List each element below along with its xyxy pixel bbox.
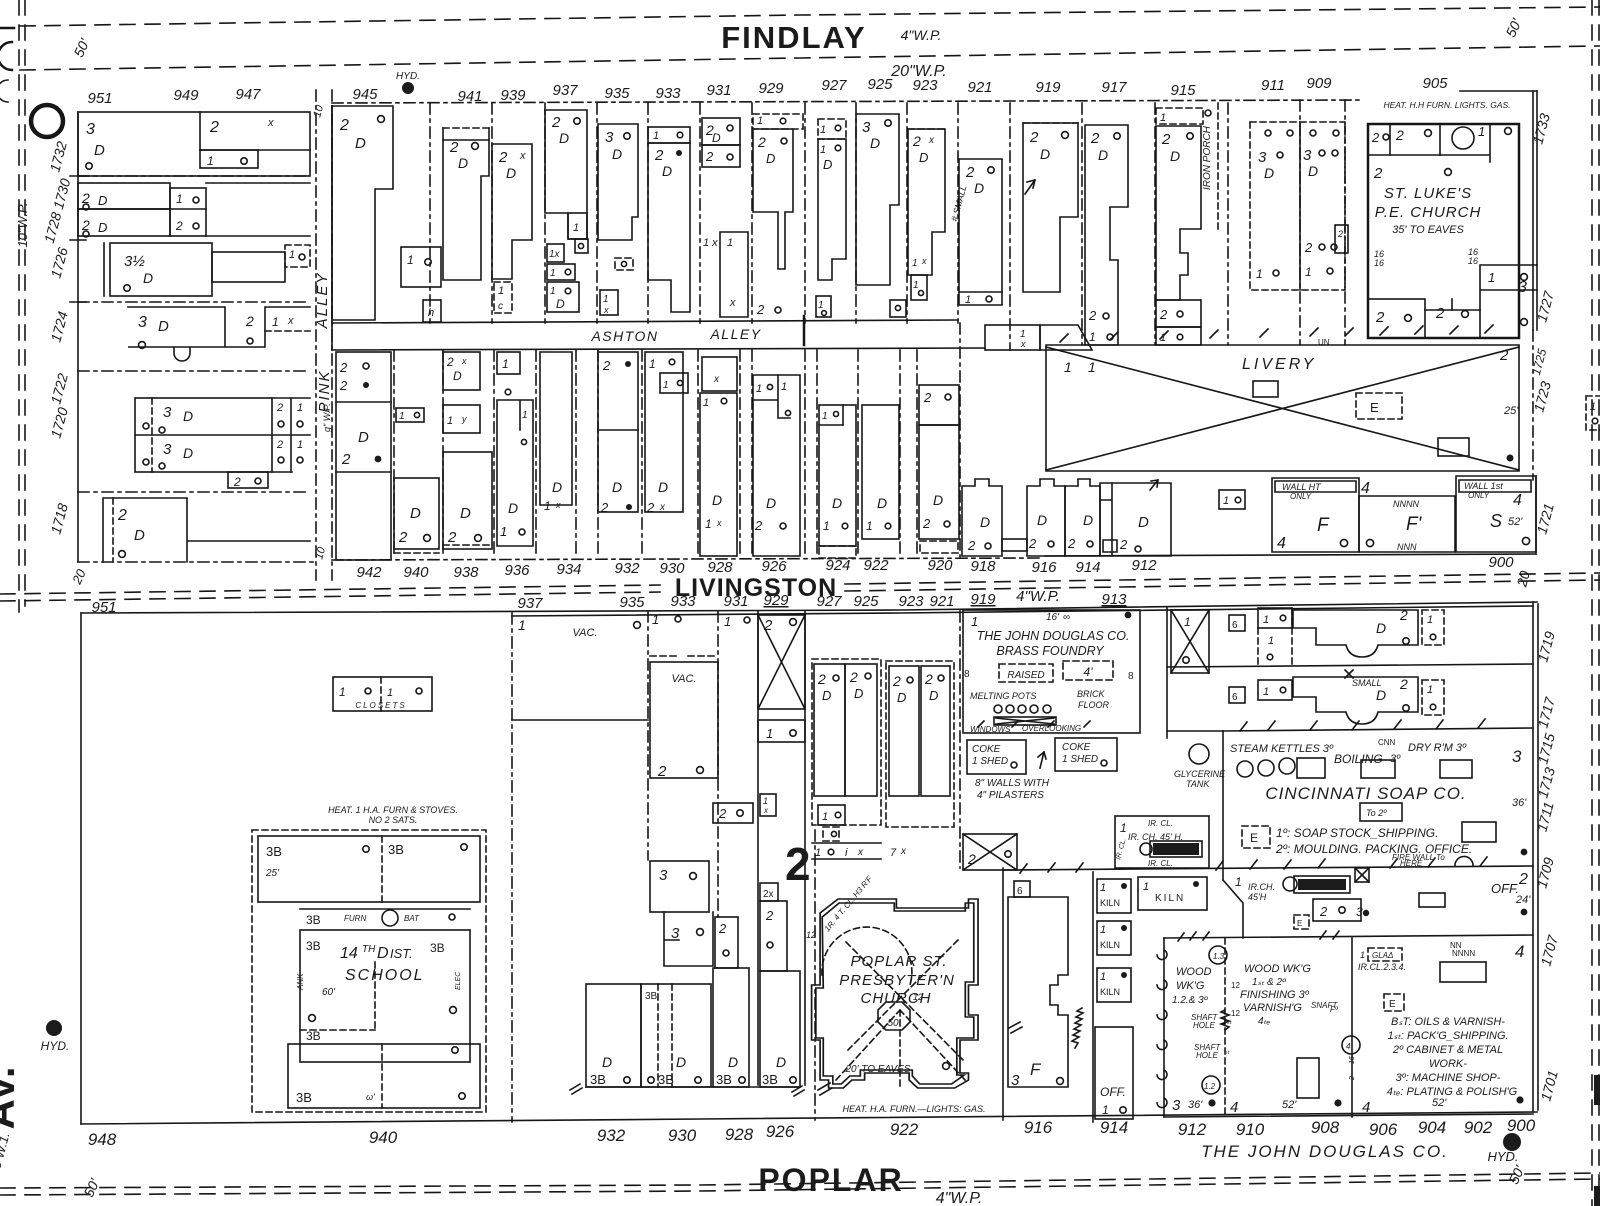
svg-text:ALLEY: ALLEY bbox=[709, 326, 761, 342]
svg-text:1: 1 bbox=[272, 315, 279, 329]
svg-text:1: 1 bbox=[207, 154, 214, 168]
svg-text:BRICK: BRICK bbox=[1077, 689, 1106, 699]
svg-text:2: 2 bbox=[498, 149, 508, 166]
svg-text:2: 2 bbox=[817, 671, 826, 687]
svg-text:WORK-: WORK- bbox=[1429, 1058, 1467, 1070]
svg-text:920: 920 bbox=[927, 557, 953, 574]
svg-text:HEAT. H.H FURN. LIGHTS. GAS.: HEAT. H.H FURN. LIGHTS. GAS. bbox=[1383, 100, 1510, 110]
svg-text:x: x bbox=[519, 150, 526, 162]
svg-text:940: 940 bbox=[369, 1128, 398, 1147]
svg-text:2: 2 bbox=[1349, 1076, 1356, 1081]
svg-text:1: 1 bbox=[544, 499, 551, 513]
svg-text:To 2º: To 2º bbox=[1366, 808, 1387, 818]
svg-text:909: 909 bbox=[1306, 75, 1332, 92]
lot 936 bbox=[497, 352, 520, 374]
svg-text:3: 3 bbox=[86, 121, 95, 138]
svg-text:1: 1 bbox=[1305, 265, 1312, 279]
svg-text:2: 2 bbox=[339, 360, 348, 375]
X box bbox=[963, 834, 1017, 870]
lot 935 bbox=[598, 124, 638, 240]
svg-text:924: 924 bbox=[825, 557, 850, 574]
svg-text:1: 1 bbox=[297, 439, 303, 451]
svg-text:x: x bbox=[603, 305, 609, 315]
svg-text:2: 2 bbox=[1373, 165, 1383, 182]
svg-text:948: 948 bbox=[88, 1130, 117, 1149]
svg-text:932: 932 bbox=[597, 1126, 626, 1145]
svg-text:2: 2 bbox=[1371, 130, 1380, 145]
svg-text:COKE: COKE bbox=[972, 744, 1001, 755]
svg-text:2: 2 bbox=[341, 451, 351, 468]
svg-text:2: 2 bbox=[785, 838, 811, 890]
svg-text:3B: 3B bbox=[306, 1029, 321, 1043]
svg-text:3: 3 bbox=[163, 404, 172, 421]
svg-text:2: 2 bbox=[1029, 129, 1039, 146]
lot 923 bbox=[908, 129, 945, 275]
Findlay north dashed line bbox=[20, 7, 1600, 26]
svg-text:2: 2 bbox=[967, 851, 976, 867]
svg-text:OFF.: OFF. bbox=[1491, 881, 1519, 896]
svg-text:1: 1 bbox=[1427, 614, 1433, 626]
svg-text:1: 1 bbox=[965, 294, 971, 306]
svg-text:D: D bbox=[556, 297, 565, 311]
svg-text:x: x bbox=[900, 846, 907, 857]
svg-text:2x: 2x bbox=[763, 889, 774, 900]
svg-text:1: 1 bbox=[913, 280, 919, 291]
lot 926 bbox=[753, 375, 800, 556]
svg-text:4: 4 bbox=[1362, 1099, 1370, 1116]
svg-text:936: 936 bbox=[504, 562, 530, 579]
svg-text:905: 905 bbox=[1422, 75, 1448, 92]
right frame dashed verticals bbox=[1591, 0, 1593, 1206]
svg-text:2: 2 bbox=[1090, 130, 1100, 147]
svg-text:D: D bbox=[1098, 147, 1108, 163]
svg-text:WOOD WK'G: WOOD WK'G bbox=[1244, 963, 1311, 975]
svg-text:3: 3 bbox=[671, 925, 680, 942]
svg-text:926: 926 bbox=[766, 1122, 795, 1141]
svg-text:D: D bbox=[712, 131, 721, 145]
svg-text:x: x bbox=[1020, 339, 1026, 349]
svg-text:934: 934 bbox=[556, 561, 581, 578]
svg-text:1: 1 bbox=[822, 811, 828, 823]
svg-text:2: 2 bbox=[1399, 676, 1408, 692]
svg-text:1: 1 bbox=[1089, 330, 1096, 344]
svg-text:916: 916 bbox=[1024, 1118, 1053, 1137]
svg-text:925: 925 bbox=[853, 593, 879, 610]
svg-text:2: 2 bbox=[646, 500, 655, 515]
svg-text:MELTING POTS: MELTING POTS bbox=[970, 691, 1036, 701]
svg-text:GLYCERINE: GLYCERINE bbox=[1174, 769, 1226, 779]
svg-text:1: 1 bbox=[387, 687, 393, 699]
svg-text:2: 2 bbox=[1337, 229, 1343, 239]
svg-text:4: 4 bbox=[1361, 480, 1370, 497]
svg-text:1: 1 bbox=[297, 402, 303, 414]
edge ticks bbox=[70, 175, 86, 177]
svg-text:2: 2 bbox=[967, 538, 976, 553]
right edge letter fragments bbox=[1594, 1075, 1600, 1105]
svg-text:IR.CH.: IR.CH. bbox=[1248, 882, 1275, 892]
svg-text:2: 2 bbox=[654, 147, 664, 164]
svg-text:GLAΔ: GLAΔ bbox=[1372, 951, 1393, 960]
svg-text:2: 2 bbox=[756, 302, 765, 317]
alley-end boxes bbox=[985, 325, 1040, 350]
svg-text:2: 2 bbox=[912, 133, 921, 149]
svg-text:1: 1 bbox=[1064, 359, 1072, 375]
svg-text:1.3: 1.3 bbox=[1213, 952, 1225, 961]
svg-text:933: 933 bbox=[655, 85, 681, 102]
svg-text:915: 915 bbox=[1170, 82, 1196, 99]
svg-text:1 x: 1 x bbox=[703, 237, 718, 249]
svg-text:902: 902 bbox=[1464, 1118, 1493, 1137]
svg-text:D: D bbox=[980, 514, 990, 530]
svg-text:D: D bbox=[728, 1054, 738, 1070]
svg-text:D: D bbox=[1138, 514, 1149, 531]
svg-text:2: 2 bbox=[1499, 347, 1509, 364]
svg-text:x: x bbox=[716, 518, 722, 528]
svg-text:1: 1 bbox=[176, 192, 183, 206]
svg-text:2: 2 bbox=[1067, 536, 1076, 551]
svg-text:h: h bbox=[428, 307, 434, 319]
firewall line bbox=[1003, 866, 1533, 870]
svg-text:1: 1 bbox=[705, 517, 712, 531]
lot 929 bbox=[753, 114, 803, 129]
svg-text:c: c bbox=[498, 301, 503, 312]
lot 945 bbox=[332, 106, 393, 320]
svg-text:4"W.P.: 4"W.P. bbox=[901, 27, 942, 43]
svg-text:20' TO EAVES: 20' TO EAVES bbox=[844, 1064, 910, 1075]
svg-text:1: 1 bbox=[399, 411, 405, 422]
svg-text:D: D bbox=[355, 135, 366, 152]
top boundary dash-dot bbox=[332, 100, 1360, 103]
svg-text:RAISED: RAISED bbox=[1007, 670, 1044, 681]
svg-text:2: 2 bbox=[1375, 309, 1385, 326]
svg-text:D: D bbox=[933, 492, 943, 508]
svg-text:2: 2 bbox=[924, 671, 933, 687]
lot 940 bbox=[396, 408, 424, 422]
svg-text:2: 2 bbox=[233, 475, 241, 489]
svg-text:D: D bbox=[832, 495, 842, 511]
svg-text:F: F bbox=[1030, 1060, 1042, 1079]
row 1724 bbox=[78, 301, 310, 303]
svg-text:2: 2 bbox=[339, 378, 348, 393]
svg-text:3: 3 bbox=[1356, 905, 1363, 919]
svg-text:1: 1 bbox=[763, 796, 768, 806]
svg-text:1: 1 bbox=[971, 614, 978, 629]
svg-text:2: 2 bbox=[551, 114, 561, 131]
svg-text:36': 36' bbox=[1188, 1099, 1203, 1111]
svg-text:1: 1 bbox=[823, 519, 830, 533]
svg-text:1 SHED: 1 SHED bbox=[1062, 754, 1098, 765]
svg-text:3º: MACHINE SHOP-: 3º: MACHINE SHOP- bbox=[1396, 1072, 1501, 1084]
svg-text:1: 1 bbox=[1263, 614, 1269, 626]
svg-text:CINCINNATI SOAP CO.: CINCINNATI SOAP CO. bbox=[1265, 784, 1466, 803]
svg-text:24': 24' bbox=[1515, 894, 1531, 906]
svg-text:1: 1 bbox=[407, 253, 414, 267]
svg-text:1: 1 bbox=[703, 397, 709, 409]
svg-text:4"W.P.: 4"W.P. bbox=[936, 1190, 983, 1206]
svg-text:935: 935 bbox=[604, 85, 630, 102]
svg-text:1.2: 1.2 bbox=[1204, 1082, 1216, 1091]
F' building bbox=[1359, 496, 1455, 552]
svg-text:923: 923 bbox=[898, 593, 924, 610]
svg-text:PRESBYTER'N: PRESBYTER'N bbox=[839, 972, 955, 989]
svg-text:3B: 3B bbox=[306, 939, 321, 953]
svg-text:2: 2 bbox=[449, 139, 459, 156]
svg-text:4"W.P.: 4"W.P. bbox=[1016, 588, 1060, 605]
svg-text:1: 1 bbox=[1478, 124, 1485, 139]
svg-text:2: 2 bbox=[849, 669, 858, 685]
svg-text:D: D bbox=[552, 479, 562, 495]
lot 932 bbox=[598, 352, 638, 512]
svg-text:ONLY: ONLY bbox=[1290, 492, 1312, 501]
svg-text:ONLY: ONLY bbox=[1468, 491, 1490, 500]
svg-text:913: 913 bbox=[1101, 591, 1127, 608]
svg-text:1ₛₜ & 2º: 1ₛₜ & 2º bbox=[1252, 977, 1287, 988]
svg-text:Fº: Fº bbox=[1330, 1005, 1339, 1014]
svg-text:6: 6 bbox=[1232, 692, 1238, 703]
svg-text:35' TO EAVES: 35' TO EAVES bbox=[1392, 224, 1464, 236]
svg-text:D: D bbox=[410, 505, 421, 522]
svg-text:911: 911 bbox=[1261, 77, 1285, 94]
svg-text:2: 2 bbox=[1028, 536, 1037, 551]
svg-text:25': 25' bbox=[265, 868, 280, 879]
svg-text:HYD.: HYD. bbox=[396, 71, 420, 82]
svg-text:930: 930 bbox=[668, 1126, 697, 1145]
svg-text:ANK: ANK bbox=[296, 973, 305, 991]
svg-text:1: 1 bbox=[818, 300, 824, 311]
svg-text:KILN: KILN bbox=[1155, 893, 1185, 904]
svg-text:4: 4 bbox=[1346, 1042, 1351, 1051]
svg-text:POPLAR: POPLAR bbox=[758, 1162, 903, 1198]
svg-text:S: S bbox=[1490, 511, 1502, 531]
coke sheds bbox=[967, 740, 1026, 774]
svg-text:1x: 1x bbox=[549, 249, 561, 260]
svg-text:926: 926 bbox=[761, 558, 787, 575]
svg-text:D: D bbox=[183, 445, 193, 461]
svg-text:1: 1 bbox=[727, 237, 733, 249]
block bottom edge bbox=[332, 558, 1043, 560]
svg-text:x: x bbox=[729, 297, 736, 309]
svg-text:D: D bbox=[766, 495, 776, 511]
svg-text:1: 1 bbox=[653, 130, 659, 142]
svg-text:VAC.: VAC. bbox=[671, 673, 696, 685]
svg-text:900: 900 bbox=[1507, 1116, 1536, 1135]
svg-text:1: 1 bbox=[500, 524, 507, 539]
svg-text:D: D bbox=[612, 146, 622, 162]
svg-text:1: 1 bbox=[1143, 881, 1149, 893]
svg-text:3B: 3B bbox=[645, 991, 658, 1002]
svg-text:KILN: KILN bbox=[1100, 940, 1120, 950]
svg-text:D: D bbox=[676, 1054, 686, 1070]
svg-text:ST. LUKE'S: ST. LUKE'S bbox=[1384, 185, 1472, 202]
iron chimney oven bbox=[1115, 816, 1209, 868]
svg-text:1: 1 bbox=[550, 268, 556, 279]
svg-text:52': 52' bbox=[1282, 1099, 1297, 1111]
svg-text:LIVINGSTON: LIVINGSTON bbox=[675, 574, 837, 602]
svg-text:2: 2 bbox=[718, 921, 727, 936]
svg-text:16': 16' bbox=[1046, 612, 1060, 623]
svg-text:ELEC: ELEC bbox=[455, 971, 462, 990]
svg-text:900: 900 bbox=[1488, 554, 1514, 571]
hatched wall marks above livery bbox=[1060, 325, 1493, 342]
svg-text:IR. CL.: IR. CL. bbox=[1148, 859, 1173, 868]
F building bbox=[1272, 478, 1359, 552]
lot 931 bbox=[702, 118, 740, 145]
svg-text:HOLE: HOLE bbox=[1193, 1021, 1215, 1030]
svg-text:928: 928 bbox=[725, 1125, 754, 1144]
svg-text:940: 940 bbox=[403, 564, 429, 581]
svg-text:D: D bbox=[877, 495, 887, 511]
svg-text:SCHOOL: SCHOOL bbox=[345, 967, 425, 984]
svg-text:D: D bbox=[612, 479, 622, 495]
svg-text:1: 1 bbox=[781, 381, 787, 393]
svg-text:D: D bbox=[1376, 620, 1386, 636]
svg-text:x: x bbox=[267, 117, 274, 129]
svg-text:52': 52' bbox=[1432, 1097, 1447, 1109]
svg-text:1: 1 bbox=[1590, 401, 1596, 413]
svg-text:932: 932 bbox=[614, 560, 640, 577]
svg-text:DRY R'M 3º: DRY R'M 3º bbox=[1408, 742, 1467, 754]
svg-text:916: 916 bbox=[1031, 559, 1057, 576]
svg-text:904: 904 bbox=[1418, 1118, 1446, 1137]
svg-text:3B: 3B bbox=[306, 913, 321, 927]
svg-text:x: x bbox=[659, 502, 666, 513]
svg-text:2: 2 bbox=[757, 134, 766, 150]
svg-text:P.E. CHURCH: P.E. CHURCH bbox=[1375, 204, 1482, 221]
svg-text:3½: 3½ bbox=[124, 253, 145, 270]
svg-text:1: 1 bbox=[1184, 615, 1191, 629]
svg-text:2: 2 bbox=[892, 673, 901, 689]
svg-text:2: 2 bbox=[1435, 305, 1445, 322]
svg-text:1: 1 bbox=[1100, 971, 1106, 983]
svg-text:2: 2 bbox=[1399, 607, 1408, 623]
svg-text:1.2.& 3º: 1.2.& 3º bbox=[1172, 995, 1209, 1006]
svg-text:IR.CL.2.3.4.: IR.CL.2.3.4. bbox=[1358, 962, 1406, 972]
svg-text:ASHTON: ASHTON bbox=[590, 328, 658, 344]
lots 918-914 under livery bbox=[962, 479, 1002, 556]
svg-text:TH: TH bbox=[362, 944, 376, 955]
svg-text:3B: 3B bbox=[658, 1072, 674, 1087]
svg-text:D: D bbox=[559, 130, 569, 146]
svg-text:914: 914 bbox=[1100, 1118, 1128, 1137]
svg-text:x: x bbox=[555, 500, 561, 510]
svg-text:D: D bbox=[508, 500, 518, 516]
row 1726 bbox=[110, 243, 212, 296]
svg-text:3: 3 bbox=[1011, 1072, 1020, 1089]
svg-text:2: 2 bbox=[765, 908, 774, 923]
svg-text:E: E bbox=[1370, 400, 1379, 415]
svg-text:938: 938 bbox=[453, 564, 479, 581]
svg-text:1: 1 bbox=[498, 285, 504, 297]
svg-text:1: 1 bbox=[766, 726, 773, 741]
rows 1722/1720 bbox=[135, 398, 272, 472]
svg-text:E: E bbox=[1250, 831, 1258, 845]
svg-text:BRASS FOUNDRY: BRASS FOUNDRY bbox=[996, 644, 1105, 658]
svg-text:929: 929 bbox=[758, 80, 784, 97]
svg-text:2: 2 bbox=[446, 355, 454, 369]
svg-text:1: 1 bbox=[289, 249, 295, 261]
svg-text:D: D bbox=[183, 408, 193, 424]
svg-text:D: D bbox=[377, 945, 389, 962]
svg-text:1: 1 bbox=[573, 222, 579, 234]
svg-text:929: 929 bbox=[763, 592, 789, 609]
svg-text:2: 2 bbox=[398, 529, 408, 546]
svg-text:930: 930 bbox=[659, 560, 685, 577]
svg-text:D: D bbox=[1083, 512, 1093, 528]
svg-text:3: 3 bbox=[659, 867, 668, 884]
svg-text:947: 947 bbox=[235, 86, 261, 103]
svg-text:WINDOWS: WINDOWS bbox=[970, 725, 1011, 734]
row 1718 bbox=[78, 491, 310, 493]
svg-text:2: 2 bbox=[1395, 127, 1404, 143]
svg-text:939: 939 bbox=[500, 87, 526, 104]
svg-text:D: D bbox=[662, 163, 672, 179]
right block edge bbox=[1532, 91, 1534, 330]
svg-text:4: 4 bbox=[1513, 492, 1522, 509]
top-left bold circle bbox=[31, 105, 63, 137]
svg-text:D: D bbox=[712, 492, 722, 508]
svg-text:D: D bbox=[358, 429, 369, 446]
svg-text:∞: ∞ bbox=[1063, 612, 1070, 623]
svg-text:12: 12 bbox=[913, 992, 923, 1002]
svg-text:WOOD: WOOD bbox=[1176, 966, 1211, 978]
svg-text:937: 937 bbox=[552, 82, 578, 99]
svg-text:931: 931 bbox=[723, 593, 748, 610]
svg-text:925: 925 bbox=[867, 76, 893, 93]
svg-text:1: 1 bbox=[1488, 270, 1495, 285]
svg-text:2: 2 bbox=[175, 219, 183, 233]
svg-text:D: D bbox=[974, 180, 984, 196]
svg-text:1: 1 bbox=[447, 415, 453, 427]
lot 912 bbox=[1100, 483, 1171, 556]
svg-text:1: 1 bbox=[339, 685, 346, 699]
svg-text:1: 1 bbox=[1120, 821, 1127, 835]
svg-text:1: 1 bbox=[822, 411, 828, 422]
svg-text:VAC.: VAC. bbox=[572, 627, 597, 639]
svg-text:D: D bbox=[854, 686, 863, 701]
svg-text:1: 1 bbox=[1223, 495, 1229, 507]
svg-text:1: 1 bbox=[522, 410, 528, 421]
gap box bbox=[1219, 490, 1245, 509]
svg-text:D: D bbox=[98, 193, 107, 208]
Poplar dashed double bbox=[0, 1173, 1600, 1188]
svg-text:D: D bbox=[143, 270, 153, 286]
svg-text:6: 6 bbox=[1232, 620, 1238, 631]
svg-text:ₙₜ: ₙₜ bbox=[1224, 1047, 1230, 1056]
svg-text:917: 917 bbox=[1101, 79, 1127, 96]
lot 941 bbox=[443, 140, 489, 280]
svg-text:6: 6 bbox=[1017, 886, 1023, 897]
svg-text:8: 8 bbox=[964, 669, 970, 680]
svg-text:D: D bbox=[1040, 146, 1050, 162]
svg-text:922: 922 bbox=[890, 1120, 919, 1139]
svg-text:3: 3 bbox=[1172, 1097, 1181, 1114]
svg-text:4': 4' bbox=[1084, 665, 1094, 679]
svg-text:2: 2 bbox=[117, 507, 127, 524]
svg-text:WALL HT: WALL HT bbox=[1282, 482, 1322, 492]
svg-text:CNN: CNN bbox=[1378, 738, 1396, 747]
svg-text:OVERLOOKING: OVERLOOKING bbox=[1022, 724, 1081, 733]
svg-text:933: 933 bbox=[670, 593, 696, 610]
svg-text:3B: 3B bbox=[590, 1072, 606, 1087]
svg-text:928: 928 bbox=[707, 559, 733, 576]
svg-text:BAT: BAT bbox=[404, 914, 420, 923]
lot 925 bbox=[856, 114, 899, 285]
row 1728/1730 bbox=[78, 175, 310, 177]
svg-text:3: 3 bbox=[163, 441, 172, 458]
svg-text:2: 2 bbox=[339, 117, 349, 134]
svg-text:919: 919 bbox=[970, 591, 996, 608]
svg-text:D: D bbox=[602, 1054, 612, 1070]
